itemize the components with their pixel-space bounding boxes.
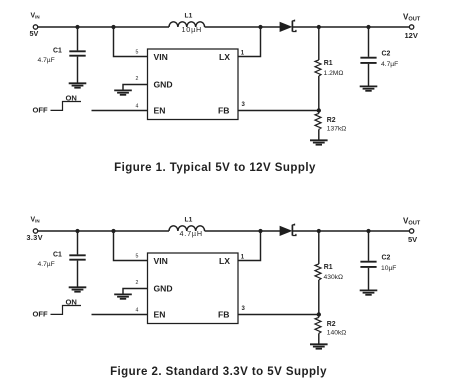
wire: enable signal to EN pin [92,314,148,316]
resistor R2 [315,111,321,140]
wire: GND pin to ground [123,289,148,294]
svg-text:5V: 5V [408,235,417,244]
junction: R1 tap [317,25,321,29]
value 140k&#937; (R2) [327,329,347,336]
value 4.7&#181;F (C2) [381,61,398,68]
svg-text:Figure 1. Typical 5V to 12V Su: Figure 1. Typical 5V to 12V Supply [114,162,316,174]
pin label EN [154,106,166,116]
label C2 [382,255,391,262]
resistor R1 [315,29,321,109]
label C2 [382,51,391,58]
pin label FB [218,106,229,116]
label R1 [324,60,333,67]
svg-text:5: 5 [136,50,139,56]
wire: L1 to diode anode [205,230,281,232]
label 12V (output voltage) [405,31,418,40]
wire input rail: VIN terminal to L1 [38,26,169,28]
svg-text:10µF: 10µF [381,265,396,272]
label R1 [324,264,333,271]
label L1 [185,216,193,223]
ground (GND pin) [114,90,132,94]
pin number 5 (VIN) [136,50,139,56]
svg-text:2: 2 [136,76,139,82]
junction: VIN-pin branch [111,229,115,233]
svg-text:3.3V: 3.3V [27,233,43,242]
svg-text:C2: C2 [382,255,391,262]
svg-text:VIN: VIN [154,52,168,62]
ground (R2) [310,344,328,348]
label 5V (output voltage) [408,235,417,244]
inductor L1 [169,22,205,27]
pin number 1 (LX) [241,50,245,56]
node VOUT (output terminal) [409,229,413,233]
IC U1 (boost converter) [148,49,239,120]
junction: LX branch [258,25,262,29]
value 1.2M&#937; (R1) [324,70,344,77]
svg-text:OFF: OFF [33,310,49,319]
svg-text:EN: EN [154,106,166,116]
wire: L1 to diode anode [205,26,281,28]
pin number 2 (GND) [136,280,139,286]
label VIN [31,216,40,223]
ground (C2) [360,86,378,90]
svg-text:FB: FB [218,310,229,320]
value 4.7&#181;H [180,229,203,238]
svg-text:4: 4 [136,307,139,313]
svg-text:5V: 5V [30,29,39,38]
label VOUT [403,216,421,226]
ground (C1) [69,287,87,291]
junction: VIN-pin branch [111,25,115,29]
wire: rail to VIN pin [114,29,148,57]
svg-text:EN: EN [154,310,166,320]
pin label VIN [154,52,168,62]
figure caption [114,162,316,174]
label VIN [31,12,40,19]
svg-text:1.2MΩ: 1.2MΩ [324,70,344,77]
svg-text:LX: LX [219,52,230,62]
svg-text:2: 2 [136,280,139,286]
pin number 5 (VIN) [136,254,139,260]
label OFF [33,310,49,319]
junction: C2 tap [366,229,370,233]
svg-text:LX: LX [219,256,230,266]
ground (C2) [360,290,378,294]
pin label LX [219,256,230,266]
svg-text:10µH: 10µH [182,25,203,34]
IC U1 (boost converter) [148,253,239,324]
node VIN (input terminal) [33,25,37,29]
svg-text:GND: GND [154,284,173,294]
diode D1 (Schottky rectifier) [280,224,296,236]
node VOUT (output terminal) [409,25,413,29]
svg-text:4.7µF: 4.7µF [38,261,55,268]
wire: rail to VIN pin [114,233,148,261]
svg-text:R2: R2 [327,321,336,328]
svg-text:VIN: VIN [31,12,40,19]
pin label EN [154,310,166,320]
svg-text:140kΩ: 140kΩ [327,329,347,336]
value 430k&#937; (R1) [324,274,344,281]
enable step waveform OFF-to-ON [51,102,82,111]
label 5V (input voltage) [30,29,39,38]
wire: LX pin up to switch node rail [238,233,261,261]
wire input rail: VIN terminal to L1 [38,230,169,232]
svg-text:4.7µF: 4.7µF [381,61,398,68]
pin number 1 (LX) [241,254,245,260]
pin number 2 (GND) [136,76,139,82]
svg-text:4.7µH: 4.7µH [180,229,203,238]
junction: LX branch [258,229,262,233]
wire: diode cathode to VOUT terminal [293,230,409,232]
label C1 [53,252,62,259]
svg-text:L1: L1 [185,12,193,19]
label L1 [185,12,193,19]
svg-text:VIN: VIN [31,216,40,223]
svg-text:R1: R1 [324,264,333,271]
junction: C2 tap [366,25,370,29]
capacitor C2 [360,233,376,290]
resistor R1 [315,233,321,313]
node VIN (input terminal) [33,229,37,233]
pin number 3 (FB) [242,306,246,312]
value 10&#181;H [182,25,203,34]
wire: GND pin to ground [123,85,148,90]
value 4.7&#181;F (C1) [38,57,55,64]
wire: FB pin to feedback divider [238,314,319,316]
svg-text:ON: ON [66,93,77,102]
label OFF [33,106,49,115]
value 137k&#937; (R2) [327,125,347,132]
junction: C1 tap [75,25,79,29]
diode D1 (Schottky rectifier) [280,20,296,32]
pin label GND [154,284,173,294]
pin label FB [218,310,229,320]
svg-text:12V: 12V [405,31,418,40]
inductor L1 [169,226,205,231]
wire: FB pin to feedback divider [238,110,319,112]
pin number 4 (EN) [136,307,139,313]
svg-text:4: 4 [136,103,139,109]
label ON [66,297,77,306]
wire: enable signal to EN pin [92,110,148,112]
pin label GND [154,80,173,90]
svg-text:R2: R2 [327,117,336,124]
label 3.3V (input voltage) [27,233,43,242]
ground (GND pin) [114,294,132,298]
svg-text:C1: C1 [53,252,62,259]
wire: LX pin up to switch node rail [238,29,261,57]
svg-text:430kΩ: 430kΩ [324,274,344,281]
resistor R2 [315,315,321,344]
label VOUT [403,12,421,22]
junction: C1 tap [75,229,79,233]
wire: diode cathode to VOUT terminal [293,26,409,28]
ground (C1) [69,83,87,87]
ground (R2) [310,140,328,144]
svg-text:137kΩ: 137kΩ [327,125,347,132]
capacitor C2 [360,29,376,86]
pin number 3 (FB) [242,102,246,108]
junction: R1 tap [317,229,321,233]
svg-text:ON: ON [66,297,77,306]
svg-text:C1: C1 [53,48,62,55]
figure caption [110,366,327,378]
svg-text:Figure 2. Standard 3.3V to 5V: Figure 2. Standard 3.3V to 5V Supply [110,366,327,378]
enable step waveform OFF-to-ON [51,306,82,315]
svg-text:VIN: VIN [154,256,168,266]
junction: feedback node FB [317,108,321,112]
svg-text:OFF: OFF [33,106,49,115]
capacitor C1 [69,233,85,287]
capacitor C1 [69,29,85,83]
value 4.7&#181;F (C1) [38,261,55,268]
value 10&#181;F (C2) [381,265,396,272]
pin label LX [219,52,230,62]
svg-text:4.7µF: 4.7µF [38,57,55,64]
svg-text:L1: L1 [185,216,193,223]
label C1 [53,48,62,55]
label R2 [327,117,336,124]
label ON [66,93,77,102]
junction: feedback node FB [317,312,321,316]
pin number 4 (EN) [136,103,139,109]
label R2 [327,321,336,328]
svg-text:C2: C2 [382,51,391,58]
svg-text:5: 5 [136,254,139,260]
svg-text:R1: R1 [324,60,333,67]
svg-text:GND: GND [154,80,173,90]
svg-text:FB: FB [218,106,229,116]
pin label VIN [154,256,168,266]
